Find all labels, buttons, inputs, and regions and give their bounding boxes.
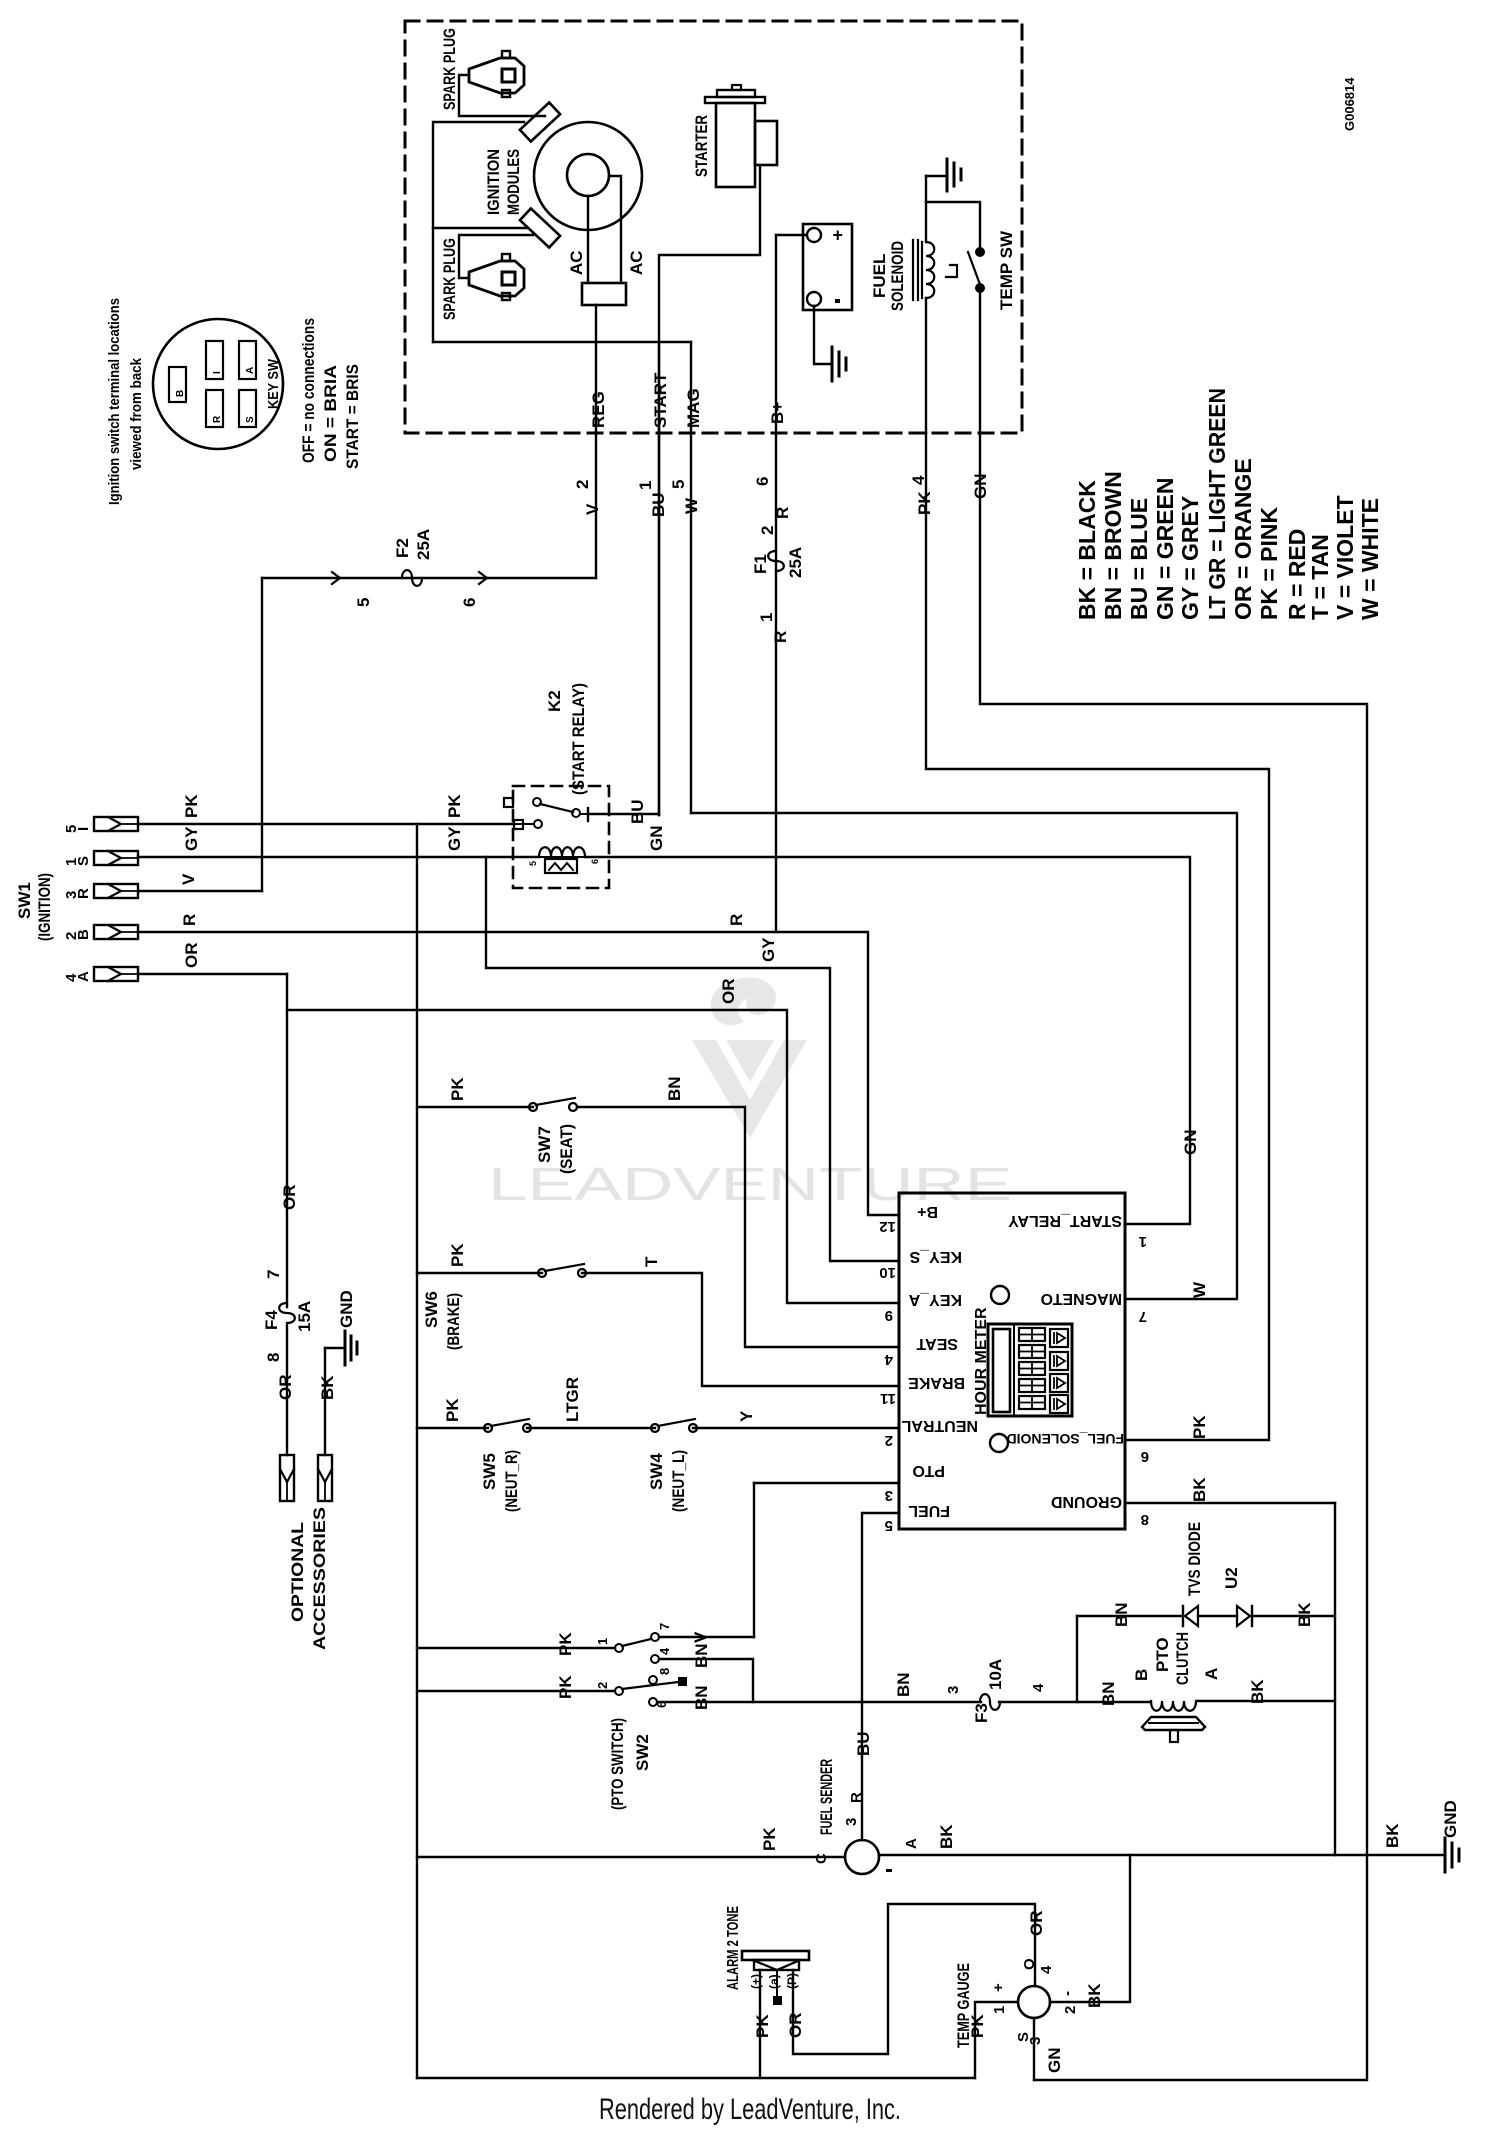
ignition coil block (582, 283, 626, 305)
svg-text:BU: BU (854, 1731, 873, 1756)
svg-text:2: 2 (595, 1682, 610, 1689)
wire PK from fuel solenoid to pin 6 (926, 433, 1269, 1440)
wire BU from relay to starter (590, 813, 659, 815)
svg-text:SPARK PLUG: SPARK PLUG (440, 28, 459, 110)
svg-text:7: 7 (1139, 1308, 1147, 1325)
wire BN from PTO contact 6 to PTO clutch (657, 1701, 981, 1703)
wire BK temp gauge pin 2 (1050, 1855, 1130, 2002)
svg-text:Ignition switch terminal locat: Ignition switch terminal locations (106, 298, 123, 505)
main ground symbol (1444, 1838, 1447, 1872)
svg-text:KEY_S: KEY_S (909, 1248, 962, 1265)
svg-text:OPTIONAL: OPTIONAL (288, 1522, 307, 1622)
svg-text:7: 7 (657, 1623, 672, 1630)
svg-text:4: 4 (657, 1647, 672, 1655)
svg-text:OR: OR (1027, 1911, 1046, 1937)
TVS diode wire (1077, 1615, 1183, 1617)
svg-text:PK: PK (448, 1243, 467, 1267)
wire BK from clutch (1197, 1700, 1335, 1702)
controller module box (899, 1193, 1125, 1529)
fuel sender minus mark (886, 1869, 892, 1872)
svg-text:REG: REG (589, 391, 608, 428)
svg-text:PK: PK (556, 1675, 575, 1699)
svg-text:(START RELAY): (START RELAY) (569, 683, 588, 795)
svg-text:10A: 10A (986, 1659, 1005, 1690)
engine compartment dashed box (405, 21, 1022, 433)
svg-text:BK: BK (1383, 1823, 1402, 1848)
svg-text:3: 3 (843, 1818, 860, 1826)
svg-text:GY: GY (759, 937, 778, 962)
svg-text:KEY_A: KEY_A (908, 1291, 962, 1308)
wire spark plug 2 to ignition module (459, 235, 533, 278)
battery minus label (835, 299, 840, 303)
svg-text:BN: BN (1099, 1681, 1118, 1706)
BK bus vertical right (1334, 1503, 1336, 1855)
svg-text:OR: OR (280, 1185, 299, 1211)
svg-text:S: S (245, 416, 256, 423)
svg-text:2: 2 (758, 526, 777, 535)
neutral switch SW4 contacts (651, 1424, 659, 1432)
svg-text:1: 1 (595, 1638, 610, 1645)
svg-text:SW7: SW7 (535, 1126, 554, 1163)
svg-text:PTO: PTO (1153, 1637, 1172, 1672)
svg-text:GN: GN (647, 826, 666, 852)
wire GY branch junction to pin 10 (486, 857, 899, 1261)
PTO switch feed wire lower (417, 1690, 615, 1692)
svg-text:6: 6 (460, 598, 479, 607)
wire V horizontal with fuse F2 (262, 577, 596, 579)
connector SW1 pin 1 S (94, 851, 138, 865)
wire BK from fuel sender to ground (879, 1854, 1443, 1856)
svg-text:(PTO SWITCH): (PTO SWITCH) (608, 1718, 627, 1810)
svg-text:6: 6 (753, 477, 772, 486)
svg-text:W = WHITE: W = WHITE (1357, 498, 1383, 620)
PTO contact 4 (651, 1655, 659, 1663)
svg-text:OR: OR (786, 2013, 805, 2039)
svg-text:NEUTRAL: NEUTRAL (901, 1417, 978, 1434)
svg-text:4: 4 (1038, 1965, 1055, 1974)
svg-text:U2: U2 (1222, 1567, 1241, 1589)
engine ground (top right) (926, 175, 945, 177)
bottom PK bus wire (417, 2077, 975, 2079)
svg-text:K2: K2 (545, 690, 564, 712)
PTO clutch coil (1151, 1701, 1196, 1711)
svg-text:4: 4 (884, 1351, 893, 1368)
svg-text:GN: GN (1181, 1130, 1200, 1156)
svg-text:CLUTCH: CLUTCH (1173, 1632, 1192, 1685)
svg-text:PK: PK (1190, 1415, 1209, 1439)
key switch circle (153, 319, 283, 449)
svg-text:BK: BK (1190, 1477, 1209, 1502)
svg-text:3: 3 (1027, 2037, 1044, 2045)
svg-text:W: W (1190, 1281, 1209, 1298)
svg-text:BN: BN (894, 1672, 913, 1697)
svg-text:STARTER: STARTER (692, 115, 711, 177)
svg-text:3: 3 (885, 1487, 893, 1504)
svg-text:SW2: SW2 (633, 1734, 652, 1771)
wire MAG (W) vertical (690, 342, 692, 813)
svg-text:B: B (175, 390, 186, 397)
fuse F1 (768, 551, 784, 571)
brake switch SW6 contacts (538, 1269, 546, 1277)
wire START (BU) vertical (658, 342, 660, 815)
svg-text:V = VIOLET: V = VIOLET (1332, 495, 1358, 620)
ignition module plate lower edge wire to MAG (433, 341, 691, 343)
svg-text:SW6: SW6 (422, 1291, 441, 1328)
hour meter display (988, 1324, 1072, 1416)
svg-text:IGNITION: IGNITION (484, 149, 503, 215)
svg-text:PK: PK (556, 1632, 575, 1656)
svg-text:F2: F2 (393, 538, 412, 558)
svg-text:-: - (1059, 1991, 1076, 1996)
svg-text:BN = BROWN: BN = BROWN (1100, 471, 1126, 620)
svg-text:5: 5 (354, 598, 373, 607)
hour meter buttons (1050, 1329, 1068, 1347)
wire temp switch down (979, 292, 981, 433)
svg-text:B+: B+ (768, 402, 787, 424)
svg-text:PK: PK (968, 2014, 987, 2038)
svg-text:V: V (179, 873, 198, 885)
svg-text:5: 5 (885, 1517, 893, 1534)
relay coil (539, 847, 585, 857)
svg-text:FUEL_SOLENOID: FUEL_SOLENOID (1007, 1431, 1124, 1447)
wire B+ (R) vertical with fuse F1 (775, 235, 777, 932)
svg-text:(BRAKE): (BRAKE) (444, 1293, 463, 1350)
svg-text:PK: PK (443, 1398, 462, 1422)
svg-text:GY: GY (445, 826, 464, 851)
svg-text:R: R (727, 914, 746, 926)
svg-text:START_RELAY: START_RELAY (1008, 1212, 1122, 1229)
svg-text:BU = BLUE: BU = BLUE (1126, 498, 1152, 620)
svg-text:PK: PK (753, 2014, 772, 2038)
svg-text:SW4: SW4 (647, 1453, 666, 1490)
svg-text:SW5: SW5 (480, 1453, 499, 1490)
svg-text:BN: BN (1112, 1602, 1131, 1627)
svg-text:GN = GREEN: GN = GREEN (1152, 477, 1178, 620)
svg-text:A: A (245, 367, 256, 374)
ignition module 1 (tilted) (520, 103, 560, 142)
svg-text:PK: PK (182, 794, 201, 818)
svg-text:BN: BN (665, 1076, 684, 1101)
svg-text:R: R (75, 888, 92, 899)
svg-text:O: O (1021, 1958, 1038, 1970)
svg-text:OFF = no connections: OFF = no connections (299, 318, 318, 463)
svg-text:1: 1 (991, 2006, 1008, 2014)
svg-text:25A: 25A (786, 547, 805, 578)
svg-text:(NEUT_R): (NEUT_R) (502, 1450, 521, 1512)
svg-text:LTGR: LTGR (563, 1377, 582, 1422)
wire V vertical to fuse F2 (261, 578, 263, 891)
relay common contact (572, 809, 580, 817)
PTO switch feed wire upper (417, 1647, 615, 1649)
svg-text:2: 2 (1062, 2006, 1079, 2014)
svg-text:5: 5 (528, 861, 538, 866)
seat switch SW7 wire (417, 1106, 533, 1108)
PTO switch pole 2 (615, 1687, 623, 1695)
svg-text:OR = ORANGE: OR = ORANGE (1230, 458, 1256, 620)
controller circle upper (991, 1286, 1009, 1304)
svg-text:LT GR = LIGHT GREEN: LT GR = LIGHT GREEN (1204, 388, 1230, 620)
fuse F2 chevron left (332, 572, 340, 584)
relay contact fixed terminal upper (504, 798, 513, 807)
wire BK accessory (324, 1348, 326, 1455)
wire OR branch to pin 9 (287, 1010, 899, 1303)
svg-text:viewed from back: viewed from back (128, 357, 145, 470)
svg-text:7: 7 (264, 1270, 283, 1279)
svg-text:PK = PINK: PK = PINK (1256, 506, 1282, 620)
svg-text:T = TAN: T = TAN (1307, 534, 1333, 620)
neutral switch SW5 contacts (484, 1424, 492, 1432)
svg-text:PK: PK (445, 794, 464, 818)
spark plug 1 (top) (469, 58, 524, 93)
connector SW1 pin 4 A (94, 967, 138, 981)
svg-text:PK: PK (760, 1827, 779, 1851)
svg-text:PK: PK (915, 491, 934, 515)
svg-text:2: 2 (573, 480, 592, 489)
svg-text:BU: BU (628, 799, 647, 824)
wire OR row SW1-4 (138, 973, 287, 975)
svg-text:BK: BK (1248, 1679, 1267, 1704)
svg-text:2: 2 (885, 1432, 893, 1449)
svg-text:+: + (832, 225, 843, 245)
svg-text:V: V (691, 1631, 710, 1643)
wire solenoid top to temp switch (926, 202, 980, 248)
svg-text:MAG: MAG (684, 388, 703, 428)
wire fuel solenoid vertical (925, 176, 927, 242)
key switch terminal B (169, 367, 186, 402)
key switch terminal I (206, 341, 223, 379)
svg-text:I: I (75, 827, 92, 831)
svg-text:AC: AC (627, 250, 646, 275)
svg-text:PTO: PTO (912, 1462, 945, 1479)
svg-text:1: 1 (1139, 1233, 1147, 1250)
battery ground symbol (831, 347, 834, 381)
svg-text:BN: BN (692, 1685, 711, 1710)
wire R row SW1-2 to pin 12 (138, 932, 899, 1215)
svg-text:SOLENOID: SOLENOID (888, 241, 907, 311)
svg-text:I: I (212, 371, 223, 374)
svg-text:11: 11 (880, 1390, 896, 1407)
svg-text:SEAT: SEAT (916, 1335, 958, 1352)
ignition module 2 (tilted) (520, 209, 560, 248)
wire GN from relay coil to pin 1 (585, 857, 1190, 1224)
svg-text:R: R (771, 631, 790, 643)
svg-text:(NEUT_L): (NEUT_L) (669, 1450, 688, 1512)
brake switch SW6 wire (417, 1272, 542, 1274)
svg-text:START = BRIS: START = BRIS (343, 364, 362, 469)
wire battery positive to B+ (776, 234, 807, 236)
key switch terminal A (239, 341, 256, 379)
svg-text:B+: B+ (917, 1203, 938, 1220)
svg-text:BK = BLACK: BK = BLACK (1074, 480, 1100, 620)
battery (803, 224, 852, 310)
svg-text:A: A (1202, 1668, 1221, 1680)
fuel solenoid coil (912, 240, 914, 300)
spark plug 2 (bottom) (469, 261, 524, 296)
svg-text:ACCESSORIES: ACCESSORIES (310, 1507, 329, 1650)
svg-text:R: R (180, 914, 199, 926)
svg-text:SPARK PLUG: SPARK PLUG (440, 238, 459, 320)
svg-text:AC: AC (567, 250, 586, 275)
wire AC left from magneto (587, 196, 589, 283)
svg-text:ALARM 2 TONE: ALARM 2 TONE (725, 1906, 742, 1990)
svg-text:V: V (583, 503, 602, 515)
svg-text:OR: OR (719, 979, 738, 1005)
svg-text:START: START (651, 372, 670, 428)
svg-text:(SEAT): (SEAT) (557, 1124, 576, 1174)
wire spark plug 1 to ignition module (459, 75, 545, 116)
svg-text:FUEL: FUEL (908, 1502, 950, 1519)
fuse F4 (279, 1303, 295, 1323)
PTO contact 6 (649, 1698, 657, 1706)
svg-text:(IGNITION): (IGNITION) (35, 873, 54, 941)
wire OR vertical to accessories (286, 974, 288, 1307)
svg-text:(a): (a) (767, 1974, 781, 1989)
battery negative terminal (807, 292, 821, 306)
svg-text:BK: BK (937, 1824, 956, 1849)
svg-text:Rendered by LeadVenture, Inc.: Rendered by LeadVenture, Inc. (599, 2093, 901, 2126)
neutral switches SW5 SW4 wire (417, 1427, 488, 1429)
wire PK from alarm (759, 1970, 761, 2078)
fuse F2 chevron right (479, 572, 487, 584)
svg-text:TEMP SW: TEMP SW (997, 230, 1016, 310)
svg-text:9: 9 (885, 1307, 893, 1324)
accessory connector OR (280, 1455, 294, 1501)
svg-text:BK: BK (318, 1375, 337, 1400)
alarm 2 tone speaker (742, 1951, 809, 1960)
svg-text:BN: BN (692, 1643, 711, 1668)
svg-text:S: S (75, 856, 92, 866)
svg-text:KEY SW: KEY SW (265, 358, 282, 409)
watermark LeadVenture logo (692, 978, 807, 1138)
svg-text:BK: BK (1295, 1602, 1314, 1627)
svg-text:GN: GN (1045, 2048, 1064, 2074)
svg-text:F1: F1 (751, 554, 770, 574)
svg-text:W: W (682, 497, 701, 514)
temp gauge circle (1018, 1986, 1050, 2018)
accessory connector BK (318, 1455, 332, 1501)
relay contact NC terminal (514, 820, 523, 829)
svg-text:6: 6 (1141, 1448, 1149, 1465)
PTO clutch body (1142, 1717, 1205, 1730)
fuel sender circle (845, 1840, 879, 1874)
wire PK to fuel sender (417, 1856, 845, 1858)
starter motor (732, 85, 741, 90)
connector SW1 pin 2 B (94, 925, 138, 939)
svg-text:B: B (1132, 1669, 1151, 1681)
svg-text:10: 10 (879, 1264, 896, 1281)
svg-text:8: 8 (264, 1353, 283, 1362)
fuse F3 (980, 1694, 1000, 1710)
wire battery negative to ground (814, 306, 830, 364)
wire AC right from magneto (609, 176, 621, 283)
wire GN from temp switch to temp gauge (980, 433, 1367, 2080)
wire GY row SW1-1 to relay coil (138, 856, 539, 858)
wire V row SW1-3 (138, 890, 262, 892)
wire OR from alarm to temp gauge (793, 1904, 1035, 2054)
wire W magneto pin 7 (691, 813, 1237, 1299)
svg-text:GY: GY (182, 826, 201, 851)
ignition module mounting plate outline (433, 122, 527, 228)
seat switch SW7 contacts (529, 1103, 537, 1111)
key switch terminal S (239, 390, 256, 427)
svg-text:MODULES: MODULES (504, 149, 523, 215)
svg-text:4: 4 (1030, 1683, 1047, 1692)
svg-text:B: B (75, 929, 92, 940)
svg-text:GY = GREY: GY = GREY (1177, 496, 1203, 620)
svg-text:1: 1 (636, 481, 655, 490)
svg-text:R: R (212, 415, 223, 423)
connector SW1 pin 5 I (94, 817, 138, 831)
main PK bus vertical (416, 824, 418, 2078)
wire BN up to TVS diode (1076, 1616, 1078, 1702)
svg-text:GND: GND (1441, 1800, 1460, 1838)
relay contact arm (540, 804, 573, 812)
controller circle lower (fuel solenoid led) (990, 1434, 1008, 1452)
svg-text:8: 8 (657, 1668, 672, 1675)
wire PK to relay NC (inside box) (514, 823, 534, 825)
connector SW1 pin 3 R (94, 884, 138, 898)
svg-text:R: R (773, 507, 792, 519)
wire BK ground pin 8 (1125, 1502, 1335, 1504)
svg-text:FUEL: FUEL (870, 254, 889, 298)
svg-text:5: 5 (669, 480, 688, 489)
svg-text:TVS DIODE: TVS DIODE (1185, 1522, 1204, 1596)
svg-text:15A: 15A (295, 1301, 314, 1332)
wire V from PTO to pin 3 (659, 1636, 754, 1638)
flywheel magneto inner circle (567, 154, 609, 196)
battery positive terminal (807, 228, 821, 242)
fuse F2 (402, 570, 422, 586)
wire GN from temp gauge bottom (1033, 2018, 1035, 2080)
svg-text:GN: GN (971, 474, 990, 500)
svg-text:3: 3 (945, 1686, 962, 1694)
wire REG (V) from ignition coil (595, 305, 597, 578)
svg-text:6: 6 (590, 859, 600, 864)
svg-text:FUEL SENDER: FUEL SENDER (817, 1759, 836, 1835)
wire starter to START (659, 165, 760, 342)
PTO switch pole 1 (615, 1644, 623, 1652)
wire BN from PTO contact 4 (659, 1659, 753, 1702)
flywheel magneto outer circle (534, 122, 642, 230)
svg-text:A: A (75, 971, 92, 982)
svg-text:MAGNETO: MAGNETO (1041, 1290, 1122, 1307)
svg-text:SW1: SW1 (15, 882, 34, 919)
svg-text:1: 1 (757, 613, 776, 622)
svg-text:4: 4 (909, 475, 928, 485)
svg-text:PK: PK (448, 1077, 467, 1101)
start relay K2 dashed box (513, 786, 609, 888)
svg-text:F4: F4 (262, 1310, 281, 1330)
svg-text:F3: F3 (972, 1703, 991, 1723)
svg-text:GROUND: GROUND (1051, 1493, 1122, 1510)
svg-text:GND: GND (337, 1290, 356, 1328)
wire BU fuel pin 5 to fuel sender (862, 1513, 899, 1840)
svg-text:OR: OR (182, 943, 201, 969)
temp switch SW (976, 248, 984, 256)
TVS diode 2 (1237, 1606, 1250, 1626)
svg-text:+: + (990, 1983, 1007, 1992)
PTO contact 7 (651, 1633, 659, 1641)
svg-text:R: R (848, 1792, 865, 1803)
svg-text:12: 12 (879, 1218, 896, 1235)
svg-text:ON = BRIA: ON = BRIA (321, 365, 340, 462)
accessory ground GND (325, 1347, 343, 1349)
wire PK row SW1-5 to relay (138, 823, 514, 825)
svg-text:C: C (813, 1853, 830, 1864)
svg-text:BRAKE: BRAKE (908, 1374, 965, 1391)
svg-text:A: A (903, 1838, 920, 1849)
svg-text:G006814: G006814 (1342, 77, 1357, 131)
